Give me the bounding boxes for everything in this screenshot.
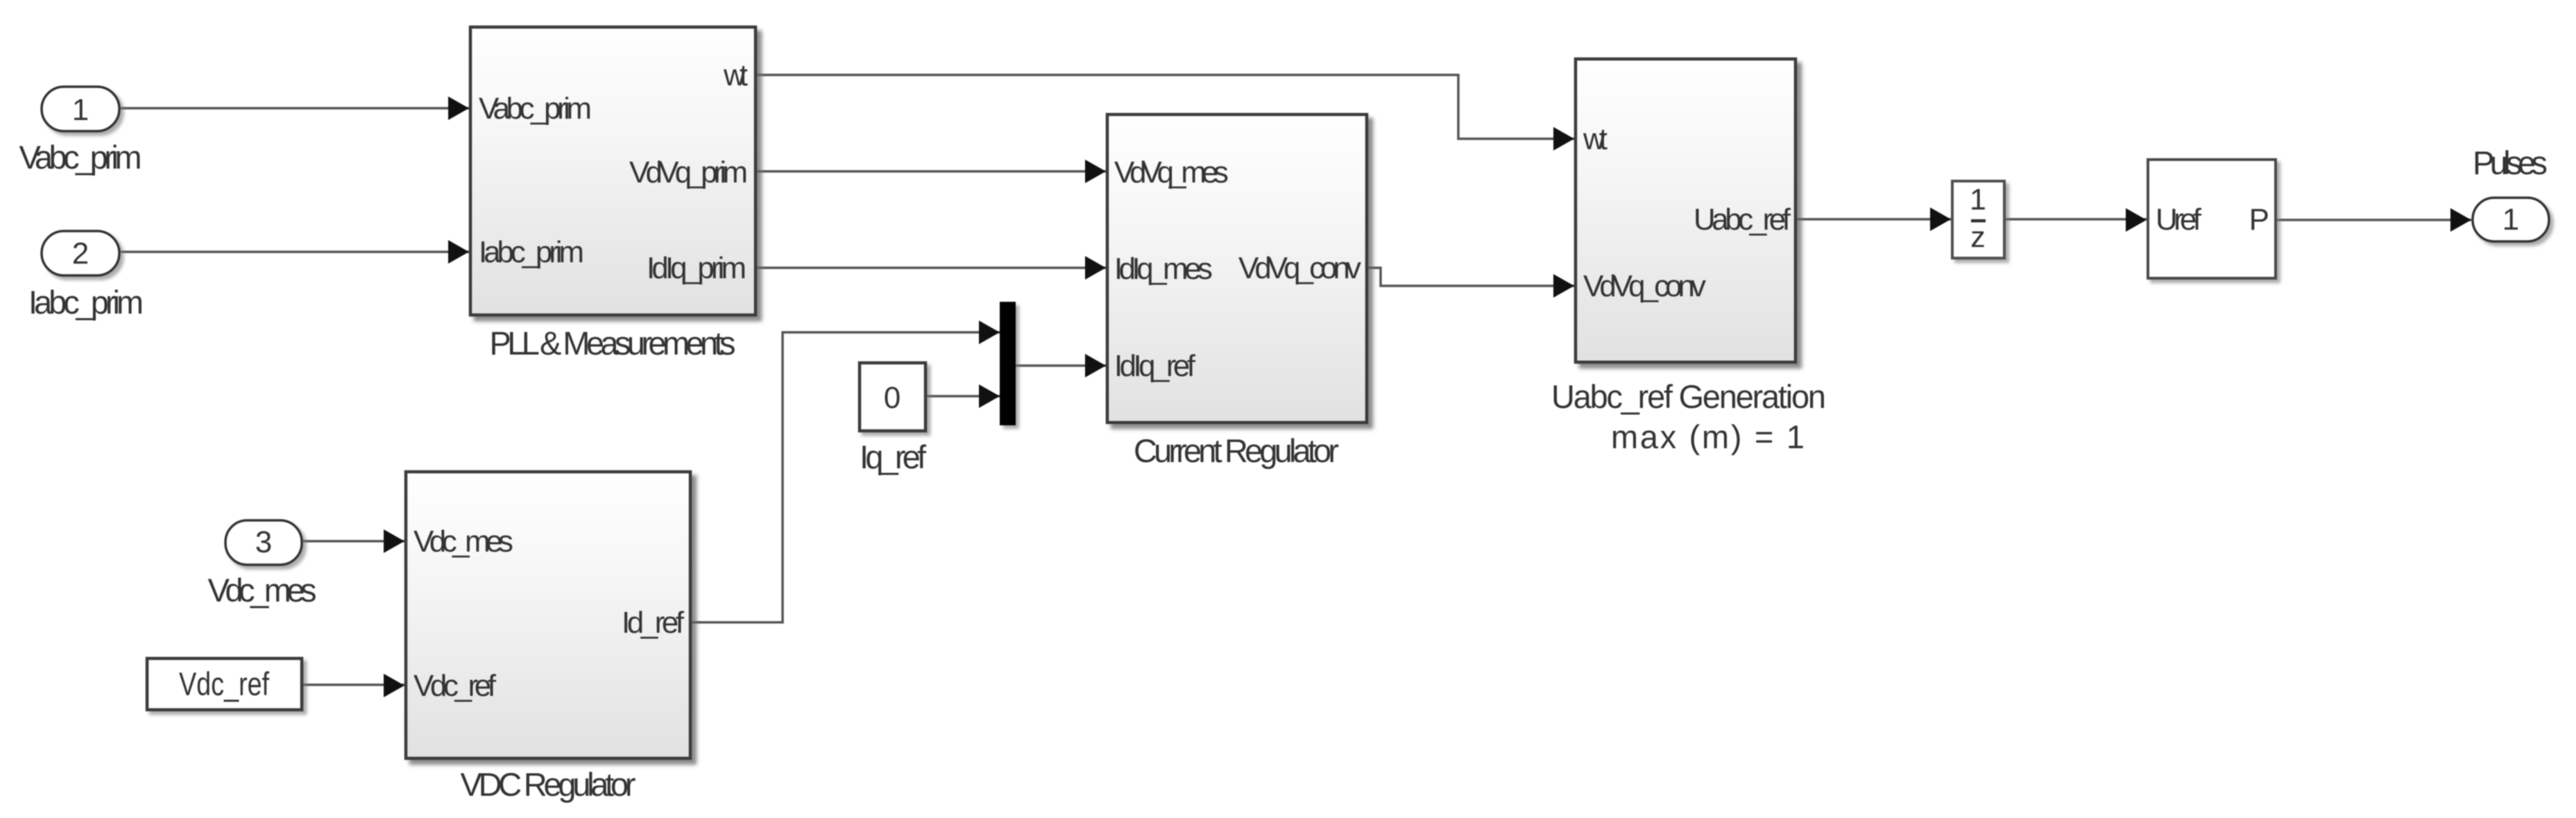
svg-text:wt: wt xyxy=(1583,122,1607,156)
svg-text:Vabc_prim: Vabc_prim xyxy=(19,139,142,176)
svg-text:Iabc_prim: Iabc_prim xyxy=(28,284,144,321)
svg-text:Vdc_ref: Vdc_ref xyxy=(413,669,497,703)
svg-text:IdIq_mes: IdIq_mes xyxy=(1114,252,1213,286)
svg-text:VdVq_conv: VdVq_conv xyxy=(1238,251,1361,285)
svg-text:Uref: Uref xyxy=(2156,203,2202,237)
svg-text:Uabc_ref Generation: Uabc_ref Generation xyxy=(1551,378,1826,415)
svg-text:Current Regulator: Current Regulator xyxy=(1134,432,1339,469)
svg-text:max (m) = 1: max (m) = 1 xyxy=(1611,418,1805,455)
svg-text:VdVq_prim: VdVq_prim xyxy=(629,155,748,189)
svg-text:P: P xyxy=(2249,203,2269,237)
svg-text:Id_ref: Id_ref xyxy=(622,606,685,640)
svg-text:1: 1 xyxy=(72,93,89,127)
svg-text:Uabc_ref: Uabc_ref xyxy=(1694,203,1791,237)
svg-text:Iabc_prim: Iabc_prim xyxy=(479,235,584,269)
svg-text:Vdc_ref: Vdc_ref xyxy=(179,665,270,702)
svg-text:1: 1 xyxy=(2502,203,2519,237)
svg-text:Vabc_prim: Vabc_prim xyxy=(479,92,592,126)
svg-text:Vdc_mes: Vdc_mes xyxy=(208,572,317,608)
svg-text:2: 2 xyxy=(72,237,89,271)
svg-text:IdIq_prim: IdIq_prim xyxy=(647,251,747,285)
svg-text:wt: wt xyxy=(723,58,748,92)
svg-text:z: z xyxy=(1970,221,1986,254)
svg-text:VdVq_mes: VdVq_mes xyxy=(1114,155,1229,189)
svg-text:Pulses: Pulses xyxy=(2473,144,2548,181)
svg-text:PLL & Measurements: PLL & Measurements xyxy=(490,325,736,361)
svg-text:3: 3 xyxy=(255,525,272,559)
svg-text:0: 0 xyxy=(884,381,901,415)
svg-text:VDC Regulator: VDC Regulator xyxy=(461,766,636,803)
svg-text:Vdc_mes: Vdc_mes xyxy=(413,525,513,559)
svg-text:1: 1 xyxy=(1970,183,1986,216)
svg-text:Iq_ref: Iq_ref xyxy=(860,438,927,475)
svg-text:VdVq_conv: VdVq_conv xyxy=(1583,269,1706,303)
svg-text:IdIq_ref: IdIq_ref xyxy=(1114,349,1196,383)
